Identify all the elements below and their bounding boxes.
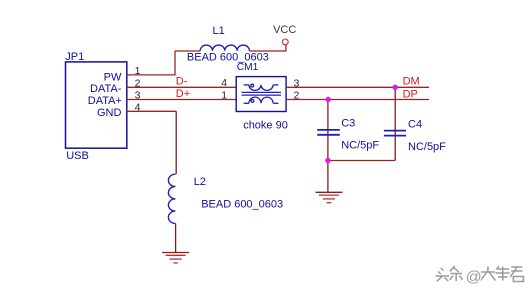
- wire DP (choke pin2 to right): [286, 99, 429, 101]
- svg-text:1: 1: [221, 89, 227, 101]
- wire pin2 to choke: [127, 86, 237, 88]
- junction dot on DP at C3: [326, 97, 331, 102]
- svg-text:JP1: JP1: [65, 51, 84, 63]
- svg-text:choke 90: choke 90: [243, 119, 288, 131]
- wire vertical to L2: [175, 111, 177, 174]
- svg-text:BEAD 600_0603: BEAD 600_0603: [201, 199, 283, 211]
- svg-text:DATA+: DATA+: [88, 95, 122, 107]
- wire DM (choke pin3 to right): [286, 86, 429, 88]
- watermark 头条@大年君: [436, 266, 525, 286]
- wire L1 line right to VCC corner: [249, 44, 286, 51]
- svg-text:VCC: VCC: [273, 24, 296, 36]
- ground symbol (L2): [162, 253, 189, 263]
- 君: [510, 267, 523, 282]
- capacitor C4: [384, 131, 406, 136]
- svg-text:D-: D-: [176, 75, 188, 87]
- choke CM1 top winding: [244, 84, 279, 90]
- svg-text:DATA-: DATA-: [90, 83, 122, 95]
- svg-text:GND: GND: [97, 107, 122, 119]
- inductor L1: [200, 45, 249, 51]
- svg-text:DP: DP: [403, 88, 418, 100]
- svg-text:C3: C3: [341, 117, 355, 129]
- wire junction to ground: [327, 161, 329, 193]
- 头: [436, 268, 450, 282]
- junction dot at C3/C4 ground rail: [325, 158, 330, 163]
- wire pin1 PW: [127, 51, 175, 75]
- wire pin4 GND down to L2: [127, 110, 177, 112]
- svg-text:NC/5pF: NC/5pF: [341, 139, 379, 151]
- junction dot on DM at C4: [393, 85, 398, 90]
- choke CM1 core lines: [242, 92, 281, 95]
- svg-text:D+: D+: [176, 88, 190, 100]
- svg-text:@: @: [466, 269, 482, 286]
- wire L1 line left: [175, 50, 200, 52]
- svg-text:C4: C4: [408, 118, 422, 130]
- svg-text:DM: DM: [403, 75, 420, 87]
- capacitor C3: [317, 130, 340, 135]
- svg-text:USB: USB: [66, 150, 89, 162]
- svg-text:NC/5pF: NC/5pF: [408, 141, 446, 153]
- 大: [481, 267, 496, 281]
- svg-text:PW: PW: [104, 71, 122, 83]
- 条: [450, 266, 463, 281]
- connector JP1 box: [66, 62, 127, 148]
- wire C4 branch: [394, 87, 396, 160]
- svg-text:L1: L1: [213, 25, 225, 37]
- wire C3 branch: [327, 100, 329, 161]
- inductor L2: [168, 174, 175, 223]
- wire pin3 to choke: [127, 99, 237, 101]
- wire bottom rail C4 to C3: [328, 160, 395, 162]
- svg-text:CM1: CM1: [237, 62, 259, 73]
- choke CM1 bottom winding: [244, 97, 279, 103]
- ground symbol (C3/C4): [316, 192, 343, 202]
- svg-text:4: 4: [221, 77, 227, 89]
- svg-text:L2: L2: [194, 176, 206, 188]
- wire L2 bottom to ground: [175, 223, 177, 252]
- choke CM1 box: [236, 77, 286, 112]
- 年: [495, 266, 509, 281]
- power port VCC circle: [282, 39, 288, 45]
